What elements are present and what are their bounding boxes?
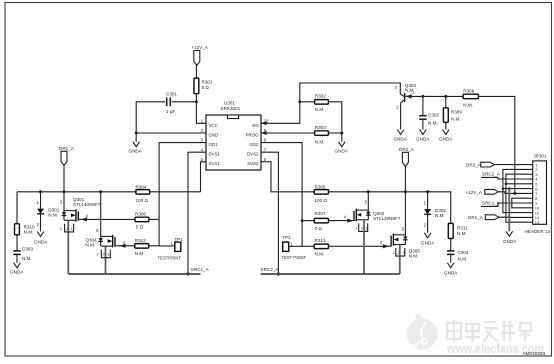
wire R302 right down [328, 102, 341, 142]
wire drain bus right of R304 [150, 191, 201, 193]
svg-text:STL140N6F7: STL140N6F7 [373, 216, 401, 221]
svg-text:SRC1_A: SRC1_A [191, 267, 210, 272]
svg-text:GD2: GD2 [249, 142, 259, 147]
wire C303 to ground [16, 254, 18, 262]
svg-text:GNDA: GNDA [503, 239, 517, 244]
wire R312 right to GD1 [149, 245, 159, 247]
wire Q302 drain drop [367, 192, 369, 210]
svg-text:GNDA: GNDA [10, 270, 24, 275]
svg-text:C302: C302 [428, 113, 439, 118]
svg-text:TESTPOINT: TESTPOINT [158, 255, 182, 260]
svg-text:1: 1 [393, 251, 395, 255]
svg-text:R303: R303 [315, 125, 326, 130]
svg-text:+12V_A: +12V_A [466, 190, 483, 195]
svg-text:2: 2 [66, 227, 68, 231]
svg-text:1: 1 [71, 227, 73, 231]
svg-text:DR2_A: DR2_A [466, 162, 482, 167]
svg-text:U301: U301 [224, 101, 235, 106]
svg-text:R309: R309 [451, 109, 462, 114]
wire gnd mesh v3 pins 8-10 [512, 198, 529, 208]
wire TP2 stub [289, 245, 302, 247]
wire Q301 gate to R306 [78, 218, 135, 220]
wire R306 right to GD1 [149, 218, 159, 220]
svg-text:N.M.: N.M. [451, 117, 461, 122]
wire SRC2_A to pin4 [481, 177, 529, 179]
resistor R301 [194, 78, 213, 94]
resistor R310 [15, 224, 36, 235]
svg-text:+12V_A: +12V_A [192, 45, 209, 50]
wire EN pin10 to Q303 base [261, 83, 400, 123]
node DVS1-src junction [186, 272, 189, 275]
wire C302 to ground [422, 119, 424, 129]
svg-text:GNDA: GNDA [129, 149, 143, 154]
power flag DR2_A header [466, 162, 494, 167]
svg-text:GND: GND [209, 132, 219, 137]
node mesh junctions [505, 183, 508, 186]
node R303 junction [340, 132, 343, 135]
node DVS2-src junction [277, 272, 280, 275]
wire Q301 source to SRC rail (gray) [67, 220, 69, 274]
wire emitter rail to R308 [413, 95, 463, 97]
wire gnd mesh v2 pins 3-5-13 [506, 174, 529, 222]
svg-text:DR1_A: DR1_A [468, 215, 484, 220]
resistor R304 [136, 185, 150, 204]
power flag +12V_A [192, 45, 209, 66]
node R307 tap [301, 219, 304, 222]
wire D301 drop [40, 192, 42, 209]
node Q302 drain tap [367, 190, 370, 193]
resistor R309 [443, 108, 462, 123]
svg-text:VCC: VCC [209, 123, 218, 128]
node Q304 drain tap [99, 190, 102, 193]
resistor R306 [135, 211, 149, 229]
capacitor C302 [419, 113, 439, 126]
svg-text:SRC2_A: SRC2_A [482, 172, 501, 177]
svg-text:2: 2 [103, 253, 105, 257]
svg-text:N.M.: N.M. [463, 102, 473, 107]
resistor R313 [314, 238, 328, 256]
svg-text:R308: R308 [463, 89, 474, 94]
svg-text:PROG: PROG [246, 132, 260, 137]
wire R313 right to Q305 gate [329, 245, 392, 247]
wire R305 right bus [329, 192, 451, 224]
svg-text:GD1: GD1 [209, 142, 219, 147]
wire R313 left [302, 245, 314, 247]
diode D302 [424, 201, 447, 218]
svg-text:SVS2: SVS2 [247, 161, 259, 166]
resistor R302 [315, 94, 329, 113]
wire SRC2_A rail [261, 273, 400, 275]
svg-text:DR1_A: DR1_A [59, 146, 75, 151]
svg-text:0 Ω: 0 Ω [315, 226, 323, 231]
svg-text:JP301: JP301 [534, 154, 547, 159]
wire R309 to ground [445, 122, 447, 129]
power flag DR1_A header [468, 215, 499, 220]
svg-text:GNDA: GNDA [421, 241, 435, 246]
svg-text:N.M.: N.M. [458, 257, 468, 262]
ground GNDA under D301 [34, 232, 48, 245]
svg-text:3: 3 [366, 226, 368, 230]
wire header GNDA drop (gray) [508, 189, 510, 232]
svg-text:HEADER 13: HEADER 13 [525, 229, 551, 234]
power flag DR1_A [59, 146, 75, 166]
wire SRC1_A rail [68, 273, 200, 275]
svg-text:3: 3 [60, 227, 62, 231]
svg-text:GNDA: GNDA [34, 239, 48, 244]
pin stubs JP301 [529, 165, 533, 223]
transistor Q305 [391, 226, 420, 258]
test point TP1 [158, 237, 184, 260]
wire R308 right down to header [478, 96, 514, 193]
svg-text:5 Ω: 5 Ω [202, 85, 210, 90]
svg-text:SRC2_A: SRC2_A [261, 267, 280, 272]
svg-text:R307: R307 [315, 211, 326, 216]
watermark chinese text 电子发烧友 [447, 320, 531, 342]
wire D301 to ground [40, 214, 42, 232]
capacitor C301 [166, 92, 177, 114]
svg-text:13: 13 [535, 220, 540, 225]
pin 4 gate arrow Q301 [81, 217, 87, 221]
wire C301 left to ground drop [136, 102, 165, 142]
node DR2_A bus junction [404, 190, 407, 193]
transistor Q301 [60, 197, 101, 232]
svg-text:100 Ω: 100 Ω [315, 198, 328, 203]
wire R311 to C304 [450, 239, 452, 251]
node C302 tap [421, 95, 424, 98]
wire DVS2 pin7 [261, 152, 278, 274]
svg-text:DVS1: DVS1 [209, 152, 221, 157]
svg-text:2: 2 [361, 226, 363, 230]
svg-text:C304: C304 [458, 250, 469, 255]
wire GND pin2 left [136, 132, 206, 134]
wire DR2_A down to Q305 drain [404, 167, 406, 235]
svg-text:C303: C303 [22, 246, 33, 251]
svg-text:R312: R312 [135, 238, 146, 243]
node EN-R302 tap [298, 100, 301, 103]
transistor Q302 [354, 199, 401, 231]
wire D302 to ground [427, 214, 429, 233]
wire SVS2 pin6 to R305 [261, 162, 314, 192]
wire R309 drop [445, 96, 447, 107]
ground GNDA under C302 [416, 130, 430, 142]
wire Q304 source to SRC rail (gray) [105, 246, 107, 274]
svg-text:5 Ω: 5 Ω [136, 225, 144, 230]
resistor R312 [135, 238, 149, 256]
ground GNDA under R309 [439, 130, 453, 142]
resistor R311 [448, 223, 468, 238]
svg-text:C301: C301 [166, 92, 177, 97]
svg-text:R304: R304 [136, 185, 147, 190]
svg-text:STL140N6F7: STL140N6F7 [73, 202, 101, 207]
op-amp U1 equivalent: IC U301 SRK2001 [201, 101, 269, 170]
wire C304 to ground [450, 254, 452, 262]
power flag DR2_A [399, 147, 415, 167]
watermark logo circle [407, 314, 438, 350]
test point TP2 [282, 235, 307, 260]
svg-text:DR2_A: DR2_A [399, 147, 415, 152]
svg-text:EN: EN [252, 123, 258, 128]
svg-text:1: 1 [108, 253, 110, 257]
ground GNDA under C303 [10, 263, 24, 275]
wire SVS1 pin5 [201, 162, 207, 192]
svg-text:GNDA: GNDA [416, 136, 430, 141]
pin 4 gate arrow Q305 [383, 244, 389, 248]
wire left drain bus DR1_A [17, 191, 136, 193]
transistor Q303 PNP [394, 83, 416, 130]
ground GNDA at Q303 collector [394, 130, 408, 142]
svg-text:TP1: TP1 [175, 237, 184, 242]
svg-text:R313: R313 [315, 238, 326, 243]
svg-text:R306: R306 [135, 211, 146, 216]
wire DR1_A to pin12 [499, 216, 529, 218]
node D302 tap [426, 190, 429, 193]
svg-text:GNDA: GNDA [394, 136, 408, 141]
wire R307 right to Q302 gate [329, 220, 356, 222]
wire DR2_A to pin1 [494, 164, 528, 166]
node GND tie [135, 132, 138, 135]
wire GD2 pin8 [261, 143, 302, 247]
node VCC junction [195, 100, 198, 103]
diode D301 [37, 200, 60, 217]
wire R310 to C303 [16, 235, 18, 251]
svg-text:AM040293: AM040293 [523, 351, 546, 356]
wire D302 drop [427, 192, 429, 209]
svg-text:R305: R305 [315, 184, 326, 189]
svg-text:1 μF: 1 μF [166, 109, 175, 114]
svg-text:N.M.: N.M. [22, 256, 32, 261]
wire Q302 source to rail (gray) [363, 220, 365, 274]
capacitor C303 [13, 246, 33, 261]
pin 4 gate arrow Q302 [347, 219, 353, 223]
resistor R308 [463, 89, 478, 108]
wire PROG pin9 to R303 [261, 132, 315, 134]
node R309 tap [444, 95, 447, 98]
svg-text:GNDA: GNDA [439, 136, 453, 141]
svg-text:R301: R301 [202, 79, 213, 84]
svg-text:R302: R302 [315, 94, 326, 99]
node R308 junction pin7 [513, 192, 516, 195]
wire TP1 stub [159, 245, 175, 247]
ground GNDA header [503, 231, 517, 244]
svg-text:N.M.: N.M. [135, 251, 145, 256]
svg-text:N.M.: N.M. [457, 231, 467, 236]
wire R301 to VCC corner [196, 94, 206, 124]
wire Q304 drain drop [100, 192, 102, 237]
svg-text:3: 3 [403, 251, 405, 255]
resistor R303 [315, 125, 329, 145]
wire R303 right [328, 132, 341, 134]
wire R302 left [300, 101, 315, 103]
wire GD1 pin3 [159, 143, 206, 246]
wire C301 right [172, 101, 197, 103]
capacitor C304 [447, 250, 469, 262]
ground GNDA under R302/R303 [335, 142, 349, 154]
ground GNDA under C301 [129, 142, 143, 154]
wire DVS1 pin4 [188, 152, 206, 274]
svg-text:N.M.: N.M. [315, 251, 325, 256]
wire DR1_A down to Q301 drain [63, 166, 65, 211]
resistor R305 [314, 184, 328, 203]
svg-text:N.M.: N.M. [435, 213, 445, 218]
wire R307 left [302, 220, 314, 222]
svg-text:N.M.: N.M. [48, 212, 58, 217]
svg-text:SRK2001: SRK2001 [221, 106, 241, 111]
transistor Q304 [85, 228, 115, 258]
svg-text:DVS2: DVS2 [247, 152, 259, 157]
resistor R307 [314, 211, 328, 231]
pin 4 gate arrow Q304 [120, 244, 126, 248]
svg-text:N.M.: N.M. [24, 230, 34, 235]
svg-text:N.M.: N.M. [315, 140, 325, 145]
node DR1_A bus junction [63, 190, 66, 193]
svg-text:3: 3 [97, 253, 99, 257]
svg-text:TP2: TP2 [282, 235, 291, 240]
svg-text:1: 1 [356, 226, 358, 230]
svg-text:TEST POINT: TEST POINT [282, 255, 307, 260]
power flag +12V_A header [466, 189, 499, 195]
svg-text:SVS1: SVS1 [209, 161, 221, 166]
svg-text:N.M.: N.M. [85, 243, 95, 248]
wire +12V_A to R301 [195, 66, 197, 79]
svg-text:N.M.: N.M. [409, 253, 419, 258]
ground GNDA under C304 [444, 263, 458, 276]
svg-text:R311: R311 [457, 226, 468, 231]
svg-text:N.M.: N.M. [428, 120, 438, 125]
wire C302 drop [422, 96, 424, 115]
wire gnd mesh v1 pins 2-6-11 [503, 169, 529, 212]
ground GNDA under D302 [421, 233, 435, 246]
connector JP301 HEADER 13 [525, 154, 551, 235]
svg-text:100 Ω: 100 Ω [136, 198, 149, 203]
wire SRC1_A to pin9 [481, 203, 529, 206]
svg-text:GNDA: GNDA [335, 149, 349, 154]
wire Q304 gate to R312 [115, 245, 135, 247]
wire +12V_A to pin7 [498, 192, 528, 194]
svg-text:N.M.: N.M. [315, 107, 325, 112]
svg-text:GNDA: GNDA [444, 271, 458, 276]
wire Q305 source to rail (gray) [399, 245, 401, 275]
wire left end down to R310 [16, 192, 18, 224]
node D301 tap [39, 190, 42, 193]
